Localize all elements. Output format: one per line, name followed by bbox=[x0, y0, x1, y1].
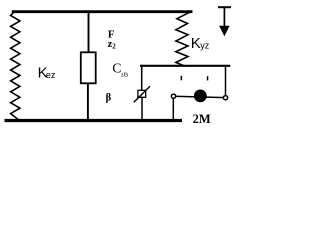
svg-text:2M: 2M bbox=[193, 112, 211, 126]
svg-text:β: β bbox=[106, 93, 112, 104]
svg-text:zB: zB bbox=[121, 72, 129, 79]
svg-text:yz: yz bbox=[200, 41, 210, 51]
svg-text:ez: ez bbox=[46, 70, 56, 80]
svg-text:2: 2 bbox=[112, 42, 116, 50]
